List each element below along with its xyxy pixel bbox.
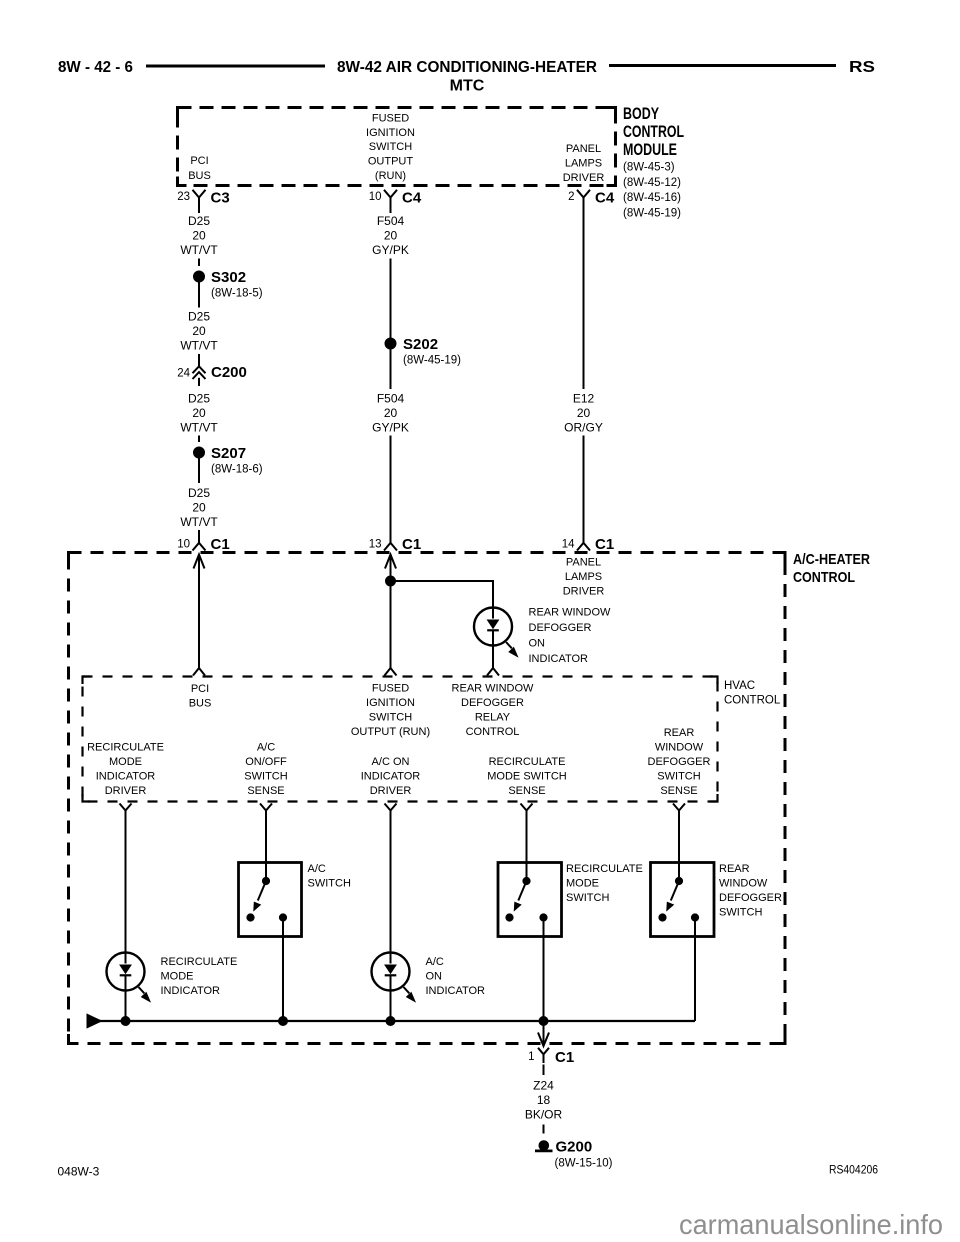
BCM label FUSED IGNITION SWITCH OUTPUT (RUN) [366,112,415,182]
svg-text:S207: S207 [211,445,246,462]
connector C1 pin 14 [577,543,590,551]
svg-text:C1: C1 [595,536,614,553]
svg-text:ON/OFF: ON/OFF [245,756,287,768]
svg-text:CONTROL: CONTROL [793,569,855,586]
label REAR WINDOW DEFOGGER SWITCH [719,863,782,919]
svg-text:DRIVER: DRIVER [563,586,605,598]
connector C3 pin 23 [193,190,206,213]
splice S207 [194,447,205,458]
module page references [623,162,681,220]
HVAC output connector a/c on indicator driver [385,804,397,820]
svg-text:SWITCH: SWITCH [566,892,609,904]
HVAC output connector rear window defogger switch sense [673,804,685,820]
LED rear window defogger ON indicator [474,608,512,676]
svg-text:MODE SWITCH: MODE SWITCH [487,771,566,783]
connector C4 pin 10 [384,190,397,213]
svg-text:DRIVER: DRIVER [370,785,412,797]
svg-text:OUTPUT: OUTPUT [368,156,414,168]
svg-text:DRIVER: DRIVER [563,172,605,184]
svg-text:8W - 42 - 6: 8W - 42 - 6 [58,59,133,76]
svg-text:GY/PK: GY/PK [372,421,409,435]
svg-text:G200: G200 [556,1139,593,1156]
svg-text:(8W-18-5): (8W-18-5) [211,288,263,300]
wire down from bus [543,1021,545,1046]
svg-text:D25: D25 [188,214,210,228]
svg-text:18: 18 [537,1093,551,1107]
svg-text:SENSE: SENSE [247,785,284,797]
svg-text:RECIRCULATE: RECIRCULATE [87,742,164,754]
svg-text:F504: F504 [377,214,405,228]
indicator annotation arrow [404,987,416,1002]
svg-text:C4: C4 [595,190,615,207]
junction node on fused ignition wire [386,576,396,586]
svg-text:BK/OR: BK/OR [525,1108,563,1122]
svg-text:C1: C1 [555,1049,574,1066]
svg-text:LAMPS: LAMPS [565,158,602,170]
svg-text:20: 20 [192,501,206,515]
svg-text:INDICATOR: INDICATOR [529,653,589,665]
svg-text:MTC: MTC [450,78,485,95]
label PANEL LAMPS DRIVER (pin 14 function) [563,557,605,598]
wire [390,436,392,543]
svg-text:HVAC: HVAC [724,680,755,692]
svg-text:D25: D25 [188,392,210,406]
wire [265,819,267,881]
indicator annotation arrow [139,987,151,1002]
svg-text:DEFOGGER: DEFOGGER [529,622,592,634]
svg-text:BUS: BUS [189,698,212,710]
svg-text:RS404206: RS404206 [829,1163,878,1177]
svg-text:SWITCH: SWITCH [308,878,351,890]
svg-text:CONTROL: CONTROL [623,123,684,141]
svg-text:WT/VT: WT/VT [180,515,218,529]
HVAC label PCI BUS [189,683,212,710]
svg-text:SWITCH: SWITCH [244,771,287,783]
wire D25 20 WT/VT label 1 [180,214,218,257]
svg-text:10: 10 [369,191,382,203]
body control module box [178,108,616,186]
wire from recirc switch to bus [543,918,545,1022]
svg-text:REAR: REAR [719,863,750,875]
wire [526,819,528,881]
bus source arrow [87,1014,102,1028]
svg-text:DRIVER: DRIVER [105,785,147,797]
svg-text:A/C: A/C [308,863,326,875]
svg-text:IGNITION: IGNITION [366,697,415,709]
wire D25 20 WT/VT label 2 [180,310,218,353]
svg-text:INDICATOR: INDICATOR [161,985,221,997]
svg-text:(8W-45-12): (8W-45-12) [623,177,681,189]
svg-text:C3: C3 [211,190,230,207]
connector C1 pin 10 [193,530,206,551]
svg-text:REAR WINDOW: REAR WINDOW [529,607,612,619]
svg-text:INDICATOR: INDICATOR [426,985,486,997]
wire [543,1065,545,1076]
recirculate mode switch box [498,863,562,937]
svg-text:FUSED: FUSED [372,112,409,124]
wire dash segment [198,259,200,267]
HVAC output connector a/c on/off switch sense [260,804,272,820]
junction node [386,1017,395,1026]
svg-text:OUTPUT (RUN): OUTPUT (RUN) [351,726,430,738]
LED recirculate mode indicator [107,953,145,1022]
wire [125,819,127,953]
svg-text:S302: S302 [211,269,246,286]
wire dash segment [198,436,200,443]
junction node [279,1017,288,1026]
svg-text:(RUN): (RUN) [375,170,406,182]
label REAR WINDOW DEFOGGER ON INDICATOR [529,607,612,666]
wire F504 20 GY/PK label 2 [372,392,409,435]
svg-text:SWITCH: SWITCH [657,771,700,783]
ground bus wire [99,1020,695,1022]
svg-text:A/C-HEATER: A/C-HEATER [793,551,870,568]
svg-text:20: 20 [384,229,398,243]
svg-text:E12: E12 [573,392,595,406]
svg-text:PCI: PCI [190,155,208,167]
wire D25 20 WT/VT label 3 [180,392,218,435]
label RECIRCULATE MODE SWITCH [566,863,643,904]
svg-text:LAMPS: LAMPS [565,571,602,583]
module name HVAC CONTROL [724,680,781,707]
svg-text:D25: D25 [188,486,210,500]
splice S302 [194,271,205,282]
svg-text:PCI: PCI [191,683,209,695]
svg-text:(8W-45-19): (8W-45-19) [403,355,461,367]
BCM label PANEL LAMPS DRIVER [563,143,605,184]
svg-text:WINDOW: WINDOW [655,742,704,754]
svg-text:BODY: BODY [623,105,659,123]
svg-text:RECIRCULATE: RECIRCULATE [489,756,566,768]
svg-text:SENSE: SENSE [660,785,697,797]
wire D25 20 WT/VT label 4 [180,486,218,529]
svg-text:C1: C1 [402,536,421,553]
wire [390,819,392,953]
A/C switch box [239,863,302,937]
HVAC label REAR WINDOW DEFOGGER RELAY CONTROL [452,683,535,739]
label A/C ON INDICATOR [426,956,486,997]
svg-text:FUSED: FUSED [372,683,409,695]
svg-text:14: 14 [562,539,575,551]
A/C-heater control module box [69,553,786,1044]
svg-text:PANEL: PANEL [566,557,601,569]
BCM label PCI BUS [188,155,211,182]
connector C1 pin 1 [538,1048,549,1063]
HVAC output connector recirc mode indicator driver [120,804,132,820]
svg-text:DEFOGGER: DEFOGGER [461,697,524,709]
HVAC label A/C ON INDICATOR DRIVER [361,756,421,797]
svg-text:20: 20 [192,324,206,338]
svg-text:SWITCH: SWITCH [719,907,762,919]
svg-text:2: 2 [568,191,574,203]
svg-text:OR/GY: OR/GY [564,421,603,435]
wire PCI bus into HVAC with arrowhead [193,555,205,676]
svg-text:ON: ON [529,638,546,650]
svg-text:WINDOW: WINDOW [719,878,768,890]
rear window defogger switch contacts and lever [659,877,699,921]
svg-text:20: 20 [192,229,206,243]
wire [198,282,200,308]
svg-text:C200: C200 [211,364,247,381]
HVAC output connector recirc mode switch sense [521,804,533,820]
svg-text:RS: RS [849,59,875,76]
wire from defogger switch to bus [694,918,696,1022]
connector C1 pin 13 [384,543,397,551]
wire [198,458,200,483]
wire E12 [583,213,585,389]
rear window defogger switch box [651,863,715,937]
svg-text:RECIRCULATE: RECIRCULATE [566,863,643,875]
svg-text:BUS: BUS [188,170,211,182]
wire fused ignition into HVAC with arrowhead [385,555,397,676]
header rule left [146,65,325,68]
LED a/c on indicator [372,953,410,1022]
wire from A/C switch to bus [282,918,284,1022]
wire Z24 18 BK/OR label [525,1079,563,1122]
svg-text:GY/PK: GY/PK [372,243,409,257]
wire F504 20 GY/PK label 1 [372,214,409,257]
connector C4 pin 2 [577,190,590,213]
svg-text:(8W-18-6): (8W-18-6) [211,464,263,476]
svg-text:24: 24 [177,367,190,379]
indicator annotation arrow [506,642,518,657]
svg-text:WT/VT: WT/VT [180,421,218,435]
svg-text:(8W-45-3): (8W-45-3) [623,162,675,174]
svg-text:20: 20 [384,406,398,420]
HVAC label FUSED IGNITION SWITCH OUTPUT (RUN) [351,683,430,739]
module name BODY CONTROL MODULE [623,105,684,159]
svg-text:F504: F504 [377,392,405,406]
A/C switch contacts and lever [247,877,287,921]
svg-text:ON: ON [426,971,443,983]
svg-text:A/C: A/C [426,956,444,968]
connector C200 pin 24 [193,354,206,386]
svg-text:INDICATOR: INDICATOR [361,771,421,783]
svg-text:CONTROL: CONTROL [466,726,520,738]
branch wire to defogger ON indicator [391,581,494,609]
svg-text:MODE: MODE [109,756,142,768]
svg-text:C1: C1 [211,536,230,553]
svg-text:8W-42 AIR CONDITIONING-HEATER: 8W-42 AIR CONDITIONING-HEATER [337,59,597,76]
wire E12 20 OR/GY label [564,392,603,435]
header rule right [609,64,836,67]
svg-text:SWITCH: SWITCH [369,141,412,153]
svg-text:D25: D25 [188,310,210,324]
svg-text:(8W-45-19): (8W-45-19) [623,207,681,219]
svg-text:IGNITION: IGNITION [366,127,415,139]
svg-text:20: 20 [192,406,206,420]
svg-text:DEFOGGER: DEFOGGER [719,892,782,904]
svg-text:CONTROL: CONTROL [724,695,781,707]
svg-text:S202: S202 [403,336,438,353]
svg-text:SWITCH: SWITCH [369,712,412,724]
svg-text:Z24: Z24 [533,1079,554,1093]
HVAC label RECIRCULATE MODE INDICATOR DRIVER [87,742,164,798]
recirculate mode switch contacts and lever [506,877,547,921]
svg-text:20: 20 [577,406,591,420]
svg-text:(8W-45-16): (8W-45-16) [623,192,681,204]
svg-text:13: 13 [369,539,382,551]
svg-text:C4: C4 [402,190,422,207]
svg-text:PANEL: PANEL [566,143,601,155]
module name A/C-HEATER CONTROL [793,551,870,586]
svg-text:RECIRCULATE: RECIRCULATE [161,956,238,968]
svg-text:RELAY: RELAY [475,712,511,724]
label RECIRCULATE MODE INDICATOR [161,956,238,997]
svg-text:A/C ON: A/C ON [372,756,410,768]
svg-text:REAR: REAR [664,727,695,739]
svg-text:1: 1 [528,1051,534,1063]
svg-text:A/C: A/C [257,742,275,754]
svg-text:DEFOGGER: DEFOGGER [648,756,711,768]
svg-text:WT/VT: WT/VT [180,243,218,257]
junction node [539,1017,548,1026]
svg-text:WT/VT: WT/VT [180,339,218,353]
svg-text:INDICATOR: INDICATOR [96,771,156,783]
svg-text:MODULE: MODULE [623,141,677,159]
svg-text:10: 10 [177,539,190,551]
splice S202 [385,338,396,349]
svg-text:MODE: MODE [566,878,599,890]
wire [678,819,680,881]
svg-text:REAR WINDOW: REAR WINDOW [452,683,535,695]
wire [390,259,392,339]
svg-text:SENSE: SENSE [508,785,545,797]
HVAC label REAR WINDOW DEFOGGER SWITCH SENSE [648,727,711,797]
svg-text:048W-3: 048W-3 [58,1165,100,1179]
ground G200 [535,1141,553,1151]
svg-text:MODE: MODE [161,971,194,983]
HVAC label RECIRCULATE MODE SWITCH SENSE [487,756,566,797]
wire dash segment [543,1125,545,1134]
svg-text:carmanualsonline.info: carmanualsonline.info [679,1209,943,1240]
label A/C SWITCH [308,863,351,890]
svg-text:23: 23 [177,191,190,203]
HVAC control box [83,677,718,802]
arrowhead into C1 [538,1033,549,1047]
wire [390,349,392,389]
svg-text:(8W-15-10): (8W-15-10) [555,1158,613,1170]
wire [583,436,585,543]
HVAC label A/C ON/OFF SWITCH SENSE [244,742,287,798]
junction node [121,1017,130,1026]
